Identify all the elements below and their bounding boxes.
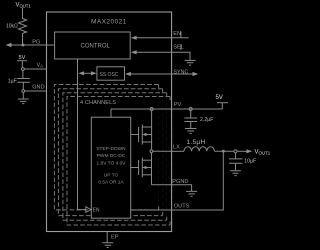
svg-text:5V: 5V	[216, 95, 223, 101]
wire SEL external	[172, 52, 190, 60]
osc arrow left head	[78, 71, 84, 75]
svg-text:10kΩ: 10kΩ	[6, 24, 18, 30]
SYNC external arrowhead	[193, 72, 199, 76]
svg-text:EP: EP	[111, 235, 119, 241]
ground symbol 10uF	[230, 171, 241, 176]
VOUT1 output arrowhead	[246, 149, 252, 153]
wire EN channel (CONTROL down to EN buffer)	[78, 59, 86, 210]
Q1 channel bar	[141, 125, 143, 145]
wire node to cap C1	[22, 70, 24, 78]
Q2 body arrowhead	[145, 166, 149, 169]
svg-text:OUTS: OUTS	[174, 204, 190, 210]
Q1 gate bar	[138, 127, 140, 142]
PG arrowhead	[6, 43, 12, 47]
arrowheads	[6, 36, 253, 169]
dashed channel box D1 (rear card)	[54, 85, 158, 210]
wire SYNC external	[172, 73, 193, 75]
wire VOUT1 to resistor	[22, 8, 24, 17]
PV line external	[172, 108, 223, 110]
svg-text:STEP-DOWN: STEP-DOWN	[96, 146, 126, 152]
IC outer box MAX20021	[47, 12, 172, 232]
svg-text:5V: 5V	[19, 55, 26, 61]
Q1 source stub	[142, 141, 151, 143]
node output terminal (open)	[234, 150, 237, 153]
dashed channel box D4 (front card)	[67, 97, 170, 226]
osc bidirectional arrow wire	[83, 72, 93, 74]
svg-text:10µF: 10µF	[244, 159, 256, 165]
svg-text:SYNC: SYNC	[174, 69, 189, 75]
Q2 body stub	[142, 167, 151, 169]
EN tick	[180, 31, 182, 37]
wire EN internal	[136, 37, 172, 39]
svg-text:MAX20021: MAX20021	[91, 18, 127, 25]
wire 5V to VA node	[21, 61, 23, 68]
wire SYNC to osc	[131, 73, 172, 75]
capacitor 10uF	[229, 153, 243, 171]
capacitor 2.2uF	[184, 111, 197, 129]
wire 5V to PV line	[221, 103, 223, 109]
svg-text:VA: VA	[37, 62, 44, 68]
channel block text	[96, 146, 126, 186]
node Q1 drain on PV rail (open)	[150, 108, 153, 111]
node on PV line (open)	[189, 108, 192, 111]
node OUTS tap (filled)	[222, 150, 225, 153]
stub PV rail to block top	[110, 109, 112, 117]
wire cap to GND node	[22, 82, 24, 89]
osc arrow right head	[91, 71, 97, 75]
dashed channel box D3	[63, 93, 167, 221]
node LX (open)	[150, 150, 153, 153]
Q1 drain stub	[142, 126, 151, 128]
inductor L1 1.5uH	[184, 147, 214, 152]
dashed channel box D2	[58, 89, 162, 216]
5V supply right bar	[217, 102, 228, 104]
wire PGND internal	[152, 184, 172, 186]
ground symbol EP	[102, 243, 113, 248]
node PG (filled)	[22, 44, 25, 47]
ground symbol PGND	[186, 191, 197, 196]
svg-text:VOUT1: VOUT1	[255, 150, 271, 156]
node GND (open)	[22, 90, 25, 93]
svg-text:1.5µH: 1.5µH	[187, 139, 206, 146]
ground symbol 2.2uF	[185, 129, 196, 134]
svg-text:1µF: 1µF	[8, 79, 17, 85]
Q2 drain lead from LX node	[151, 153, 153, 168]
wire output arrow	[237, 150, 247, 152]
wire inductor to output node	[214, 150, 234, 152]
wire OUTS internal	[131, 209, 172, 211]
channel block	[91, 117, 130, 218]
SEL arrowhead into CONTROL	[131, 50, 137, 54]
PV rail internal	[111, 108, 172, 110]
Q2 source lead down to PGND	[151, 168, 153, 185]
svg-text:PV: PV	[174, 102, 182, 108]
Q2 drain stub	[142, 159, 151, 161]
oscillator box	[97, 67, 125, 80]
svg-text:0.5A OR 1A: 0.5A OR 1A	[98, 179, 124, 185]
transistor Q1 high-side: gate lead	[131, 134, 139, 136]
wire EP	[106, 232, 108, 243]
Q1 drain lead from PV node	[151, 111, 153, 135]
wire LX to inductor	[172, 150, 184, 152]
arrow left at PG node	[10, 44, 23, 46]
svg-text:CONTROL: CONTROL	[81, 43, 111, 49]
wire GND node down	[22, 92, 24, 99]
svg-text:VOUT1: VOUT1	[16, 3, 32, 9]
Q1 source lead to LX node	[151, 135, 153, 150]
SEL tick	[180, 44, 182, 50]
svg-text:SEL: SEL	[173, 45, 184, 51]
SYNC arrowhead at osc	[125, 72, 131, 76]
svg-text:EN: EN	[173, 31, 181, 37]
wire VA	[24, 68, 46, 70]
wire GND	[25, 90, 47, 92]
Q2 source stub	[142, 174, 151, 176]
svg-text:UP TO: UP TO	[104, 172, 119, 178]
svg-text:2.2µF: 2.2µF	[200, 117, 213, 123]
svg-text:PGND: PGND	[172, 179, 188, 185]
ground symbol left	[18, 99, 29, 104]
wire PG	[23, 44, 55, 46]
Q1 body arrowhead	[145, 133, 149, 136]
5V supply bar left	[17, 60, 27, 62]
Q2 channel bar	[141, 158, 143, 178]
wire LX internal	[153, 150, 172, 152]
capacitor C1 1uF	[17, 79, 30, 83]
node VA (open)	[22, 68, 25, 71]
Q2 gate bar	[138, 160, 140, 175]
svg-text:PG: PG	[32, 40, 40, 46]
wire OUTS external	[172, 153, 224, 210]
ground symbol SEL	[185, 60, 196, 65]
wire EN external	[172, 37, 189, 39]
control block	[55, 32, 131, 59]
transistor Q2 low-side: gate lead	[131, 167, 139, 169]
svg-text:4 CHANNELS: 4 CHANNELS	[80, 100, 116, 106]
svg-text:1.8V TO 4.0V: 1.8V TO 4.0V	[97, 160, 127, 166]
wire SEL internal	[136, 51, 172, 53]
EN arrowhead into CONTROL	[131, 36, 137, 40]
wire resistor to PG node	[22, 35, 24, 45]
svg-text:EN: EN	[93, 207, 100, 213]
Q1 body stub	[142, 134, 151, 136]
svg-text:PWM DC-DC: PWM DC-DC	[97, 153, 126, 159]
svg-text:LX: LX	[173, 145, 180, 151]
EN buffer triangle	[86, 207, 91, 213]
svg-text:GND: GND	[32, 85, 44, 91]
svg-text:SS OSC: SS OSC	[100, 72, 119, 78]
wire PGND external	[172, 185, 192, 192]
resistor 10k	[19, 17, 27, 35]
